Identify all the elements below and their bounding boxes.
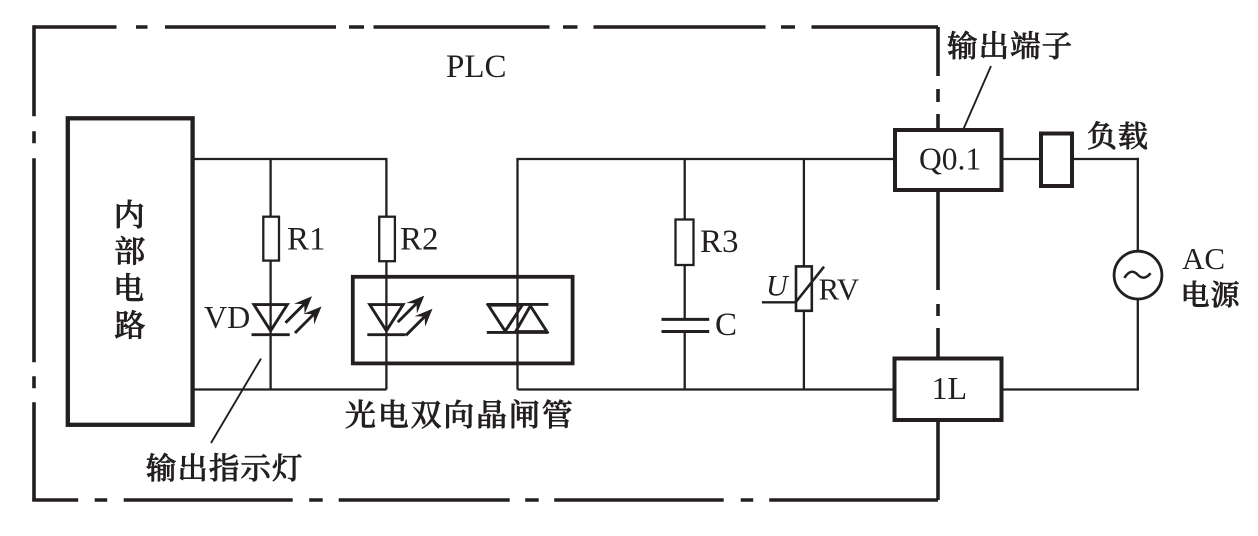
wire: phototriac vertical branch xyxy=(516,159,518,390)
svg-text:1L: 1L xyxy=(932,370,968,406)
optocoupler LED cathode bar xyxy=(367,333,405,336)
svg-text:R3: R3 xyxy=(700,224,739,260)
wire: secondary bottom bus xyxy=(518,388,895,390)
svg-text:AC: AC xyxy=(1182,241,1225,276)
optocoupler LED emission arrow 1 xyxy=(398,302,418,322)
output terminal Q0.1 box xyxy=(895,130,1002,190)
capacitor C bottom plate xyxy=(662,330,710,333)
LED VD emission arrow 2 xyxy=(295,313,315,333)
wire: R3/C vertical branch (above C) xyxy=(684,159,686,319)
svg-text:U: U xyxy=(766,270,790,303)
wire: RV vertical branch xyxy=(803,159,805,390)
PLC boundary bottom edge (dash-dot) xyxy=(32,498,938,502)
PLC boundary left edge (dash-dot) xyxy=(32,25,36,500)
PLC boundary right edge upper segment (dash-dot, to Q0.1) xyxy=(936,27,940,130)
wire: load to right rail xyxy=(1072,158,1139,160)
resistor R1 xyxy=(263,217,279,261)
wire: primary bottom bus xyxy=(192,388,387,390)
label 光电双向晶闸管 (phototriac) xyxy=(346,400,572,429)
label text 内部电路 char 电 xyxy=(117,273,143,301)
svg-text:R1: R1 xyxy=(287,222,326,258)
wire: secondary top bus xyxy=(516,158,895,160)
LED VD emission arrow 1 xyxy=(286,303,306,323)
phototriac optocoupler box U1 xyxy=(353,277,573,364)
wire: R2/opto-LED vertical branch xyxy=(385,159,387,390)
PLC boundary right edge middle segment (dash-dot, Q0.1 to 1L) xyxy=(936,190,940,358)
label 输出端子 (output terminal) xyxy=(948,31,1071,60)
phototriac up triangle xyxy=(516,306,547,332)
phototriac down triangle xyxy=(488,305,522,331)
terminal 1L box xyxy=(895,359,1002,421)
PLC boundary right edge lower segment (solid, 1L to bottom) xyxy=(936,420,940,500)
label text 内部电路 char 部 xyxy=(116,236,145,265)
phototriac top bar xyxy=(487,303,549,306)
svg-text:PLC: PLC xyxy=(446,49,507,85)
wire: R1/VD vertical branch xyxy=(269,159,271,390)
label text 内部电路 char 内 xyxy=(117,200,143,229)
resistor R2 xyxy=(379,217,395,262)
phototriac bottom bar xyxy=(487,331,549,334)
LED VD triangle xyxy=(254,305,287,331)
wire: R3/C vertical branch (below C) xyxy=(684,332,686,390)
leader line to 输出指示灯 xyxy=(211,359,261,443)
optocoupler LED emission arrow 2 xyxy=(406,315,426,335)
label 输出指示灯 (output indicator lamp) xyxy=(147,453,302,482)
label 电源 (power source) xyxy=(1184,281,1239,308)
wire: right rail vertical through AC source xyxy=(1137,158,1139,390)
svg-text:R2: R2 xyxy=(400,222,439,258)
capacitor C top plate xyxy=(662,318,710,321)
AC source sine symbol xyxy=(1124,272,1150,278)
label text 内部电路 char 路 xyxy=(115,310,145,339)
leader line to 输出端子 xyxy=(963,66,991,130)
wire: 1L to right rail bottom xyxy=(1002,388,1140,390)
svg-text:VD: VD xyxy=(204,299,250,335)
svg-text:RV: RV xyxy=(819,272,860,307)
varistor RV body xyxy=(796,266,812,310)
varistor RV diagonal stroke xyxy=(796,267,825,303)
load resistor box xyxy=(1041,134,1072,187)
wire: Q0.1 to load xyxy=(1002,158,1042,160)
varistor U underline / tail xyxy=(762,301,796,303)
label 负载 (load) xyxy=(1088,121,1147,149)
wire: primary top bus xyxy=(192,158,388,160)
PLC boundary top edge (dash-dot) xyxy=(34,25,938,29)
svg-text:Q0.1: Q0.1 xyxy=(919,142,981,177)
LED VD cathode bar xyxy=(252,333,290,336)
AC source circle xyxy=(1114,251,1162,299)
internal circuit box (内部电路) xyxy=(68,118,193,425)
optocoupler LED triangle xyxy=(370,305,403,331)
resistor R3 xyxy=(676,220,694,266)
svg-text:C: C xyxy=(715,307,737,343)
